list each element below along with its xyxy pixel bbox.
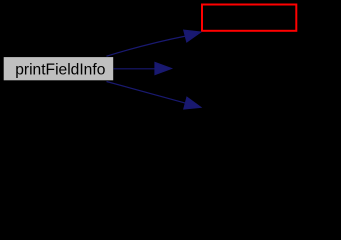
svg-text:printFieldInfo: printFieldInfo <box>15 61 105 78</box>
node N1 (red truncated callee box) <box>202 5 296 31</box>
node printFieldInfo (gray root node) <box>3 57 114 81</box>
node N2 (callee, black-on-transparent, invisible) <box>173 57 341 81</box>
edge printFieldInfo -> N2 (wire) <box>114 62 172 74</box>
edge printFieldInfo -> N1 (wire) <box>107 30 202 56</box>
node N3 (callee, black-on-transparent, invisible) <box>203 96 341 120</box>
edge printFieldInfo -> N3 (wire) <box>107 82 202 110</box>
